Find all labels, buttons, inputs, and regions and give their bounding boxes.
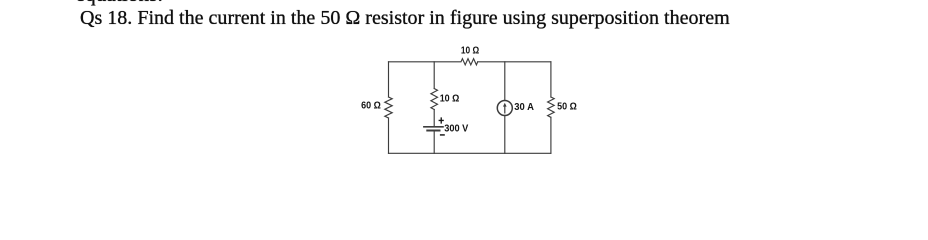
wire branch2 middle (resistor to battery) [433,110,435,127]
title: question text [80,6,730,30]
wire branch3 upper [504,62,506,101]
wire branch3 lower [504,115,506,153]
battery minus sign [440,134,445,135]
svg-text:10 Ω: 10 Ω [440,93,460,104]
current source I1 arrow shaft [504,106,506,113]
cut-off previous line "equations." at very top [76,0,163,3]
battery V1 short plate [427,130,439,132]
wire left upper [388,62,390,97]
wire top-right segment (resistor to node B) [478,61,551,63]
resistor R1 10-ohm horizontal zigzag [461,59,478,65]
wire branch2 lower (battery to bottom) [433,131,435,153]
wire left lower [388,118,390,153]
wire branch2 upper [433,62,435,89]
wire bottom [389,152,551,154]
current source I1 arrowhead [503,103,507,107]
svg-text:300 V: 300 V [444,124,468,135]
wire right upper [550,62,552,97]
battery V1 long plate [424,126,443,128]
resistor R3 50-ohm vertical zigzag [548,97,555,117]
current source I1 circle [497,101,512,116]
wire right lower [550,117,552,153]
svg-text:10 Ω: 10 Ω [461,46,479,57]
resistor R2 60-ohm vertical zigzag [385,97,392,118]
circuit schematic SVG [0,0,928,179]
svg-text:60 Ω: 60 Ω [361,101,381,112]
svg-text:30 A: 30 A [514,102,534,113]
battery plus sign [439,117,444,123]
svg-text:50 Ω: 50 Ω [557,102,577,113]
wire top-left segment (node A to resistor) [389,61,461,63]
resistor R4 10-ohm vertical zigzag [431,89,438,110]
